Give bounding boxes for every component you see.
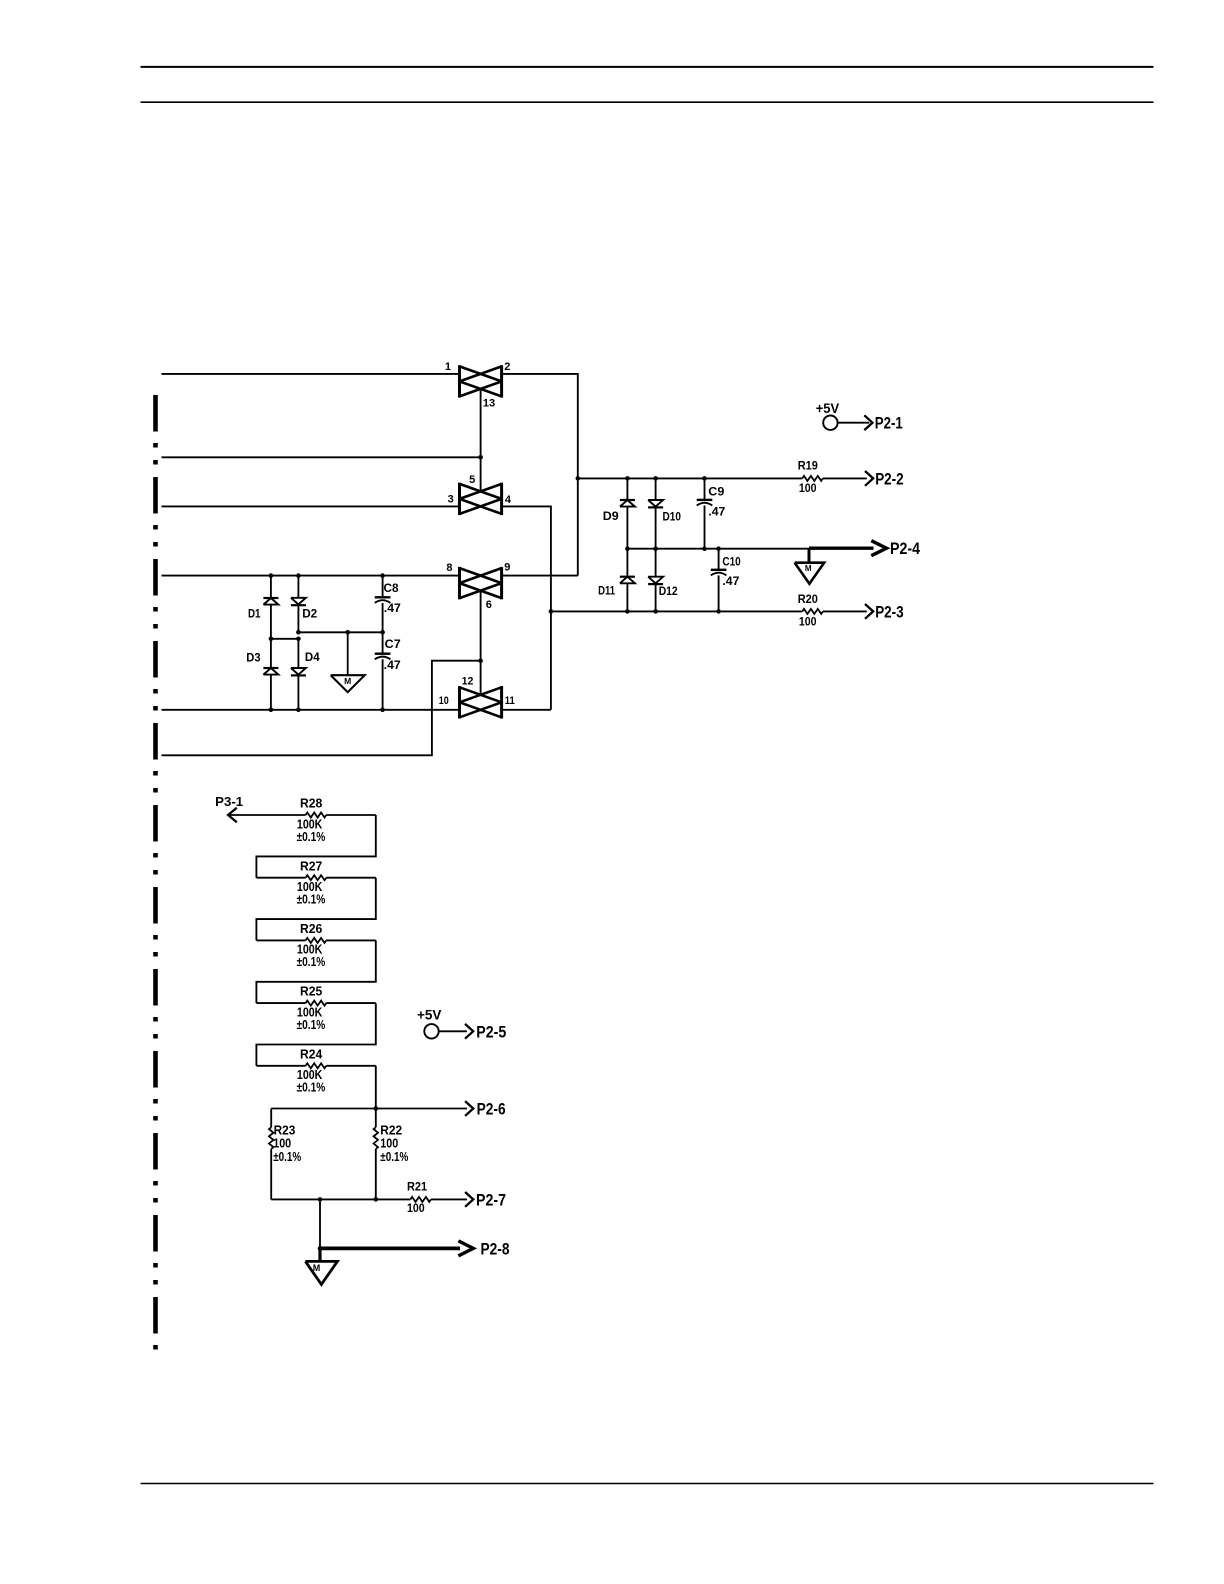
thick wire to P2-8	[320, 1247, 460, 1251]
wire net6 to controls 6/12	[162, 661, 481, 756]
svg-text:13: 13	[483, 398, 495, 410]
node junction pin4 net / P2-3 rail	[549, 609, 554, 614]
svg-text:D1: D1	[248, 607, 261, 621]
svg-text:100: 100	[799, 614, 817, 628]
wire +5V to P2-5	[439, 1030, 467, 1032]
wire net1 to pin 1	[162, 373, 460, 375]
ground stem (lower)	[319, 1199, 321, 1248]
resistor R27	[256, 877, 305, 879]
node ground stem / P2-8	[318, 1246, 323, 1251]
analog switch U1A pins 1/2/13	[458, 365, 461, 397]
capacitor C7	[382, 632, 384, 653]
ladder loop wire	[256, 815, 375, 878]
diode D1	[270, 576, 272, 598]
svg-text:5: 5	[469, 474, 475, 486]
svg-text:12: 12	[462, 676, 474, 688]
svg-text:3: 3	[448, 494, 454, 506]
wire pin 9 to vertical	[502, 575, 578, 577]
node P2-6 / R22-R24	[374, 1106, 379, 1111]
svg-text:C10: C10	[722, 555, 741, 569]
svg-text:R24: R24	[300, 1047, 322, 1061]
svg-text:±0.1%: ±0.1%	[380, 1150, 408, 1164]
svg-text:M: M	[344, 676, 351, 686]
ground symbol M (lower)	[305, 1261, 337, 1284]
svg-text:P2-8: P2-8	[481, 1239, 510, 1258]
svg-text:P2-1: P2-1	[875, 414, 903, 433]
board-edge phantom line	[153, 395, 158, 1359]
svg-text:9: 9	[504, 562, 510, 574]
svg-text:100: 100	[273, 1137, 291, 1151]
svg-text:R25: R25	[300, 985, 322, 999]
port arrow P2-3	[865, 604, 873, 619]
ladder loop wire	[256, 1003, 375, 1066]
node net5/D4	[296, 708, 301, 713]
svg-text:D11: D11	[598, 584, 615, 598]
resistor R26	[256, 939, 305, 941]
svg-text:D4: D4	[305, 650, 320, 664]
svg-text:10: 10	[439, 695, 449, 707]
wire R21 to P2-7	[431, 1198, 467, 1200]
svg-text:D3: D3	[246, 650, 261, 664]
ground symbol M (P2-4)	[795, 563, 825, 584]
svg-text:D2: D2	[302, 606, 317, 620]
node mid rail / C9	[702, 546, 707, 551]
svg-text:±0.1%: ±0.1%	[297, 893, 326, 907]
svg-text:M: M	[805, 564, 812, 573]
node P2-7 row / ground stem	[318, 1197, 323, 1202]
wire D1-D2 link	[271, 638, 299, 640]
port arrow P2-4 (thick)	[871, 541, 886, 556]
diode D12	[655, 549, 657, 577]
wire net2 to control pins 13/5	[162, 456, 481, 458]
svg-text:C8: C8	[384, 581, 399, 595]
port arrow P2-2	[865, 471, 873, 486]
svg-text:M: M	[313, 1263, 321, 1273]
node junction net6/controls	[478, 658, 483, 663]
resistor R28	[228, 814, 306, 816]
ladder loop wire	[256, 878, 375, 941]
svg-text:C9: C9	[708, 484, 724, 498]
wire pin 4 to pin 11 net	[502, 506, 551, 709]
svg-text:P3-1: P3-1	[215, 794, 243, 809]
svg-text:R20: R20	[798, 592, 818, 606]
diode D10	[655, 478, 657, 500]
svg-text:R27: R27	[300, 859, 322, 873]
svg-text:.47: .47	[708, 505, 725, 519]
node D1 link	[269, 637, 274, 642]
control line pin13 to pin5	[480, 389, 482, 492]
node pin2-pin9 / top rail tap	[576, 476, 581, 481]
svg-text:P2-7: P2-7	[476, 1190, 506, 1209]
port arrow P2-5	[465, 1024, 473, 1039]
resistor R19	[802, 476, 823, 481]
diode D11	[626, 549, 628, 577]
wire net4 to pin 8	[162, 575, 460, 577]
svg-text:1: 1	[445, 361, 451, 373]
node D2 link	[296, 637, 301, 642]
node pin8 wire / D1 branch	[269, 573, 274, 578]
node P2-7 row / R22	[374, 1197, 379, 1202]
diode D4	[297, 639, 299, 668]
wire net5 to pin 10	[162, 709, 460, 711]
wire pin 11 right	[502, 709, 551, 711]
resistor R21	[410, 1197, 431, 1202]
port arrow P2-6	[465, 1101, 473, 1116]
wire net3 to pin 3	[162, 505, 460, 507]
resistor R22 (vertical)	[375, 1109, 377, 1128]
svg-text:R19: R19	[798, 458, 818, 472]
node D2/mid link	[296, 630, 301, 635]
svg-text:R23: R23	[274, 1123, 296, 1137]
svg-text:R26: R26	[300, 922, 322, 936]
node top rail / D9	[625, 476, 630, 481]
svg-text:R21: R21	[407, 1179, 427, 1193]
wire R19 to P2-2	[823, 477, 867, 479]
resistor R24	[256, 1065, 305, 1067]
node net5/D3	[269, 708, 274, 713]
top rail to R19	[578, 477, 803, 479]
svg-text:D9: D9	[603, 509, 619, 523]
node bottom rail / D12	[653, 609, 658, 614]
capacitor C8	[382, 576, 384, 598]
capacitor C10	[718, 549, 720, 570]
svg-text:P2-2: P2-2	[875, 469, 904, 488]
port arrow P3-1 (left)	[228, 808, 237, 822]
svg-text:P2-6: P2-6	[477, 1100, 506, 1119]
svg-text:100: 100	[799, 481, 817, 495]
page top rule 1	[141, 66, 1154, 68]
svg-text:.47: .47	[722, 574, 739, 588]
diode D3	[270, 639, 272, 668]
svg-text:D12: D12	[659, 584, 678, 598]
svg-text:±0.1%: ±0.1%	[297, 1018, 326, 1032]
analog switch U1D pins 12/10/11	[458, 686, 461, 718]
port arrow P2-7	[465, 1192, 473, 1207]
svg-text:±0.1%: ±0.1%	[273, 1150, 301, 1164]
svg-text:.47: .47	[384, 601, 401, 615]
node mid rail / C10	[716, 546, 721, 551]
wire +5V to P2-1	[838, 422, 870, 424]
port arrow P2-8 (thick)	[458, 1241, 473, 1256]
wire R24 down to P2-6 node	[375, 1066, 377, 1109]
page bottom rule	[141, 1483, 1154, 1485]
svg-text:P2-3: P2-3	[875, 602, 904, 621]
analog switch U1C pins 8/9/6	[458, 567, 461, 599]
node pin8 wire / D2 branch	[296, 573, 301, 578]
ladder loop wire	[256, 940, 375, 1003]
node mid link / C7-C8	[380, 630, 385, 635]
node junction net2/controls	[478, 455, 483, 460]
svg-text:P2-5: P2-5	[476, 1022, 506, 1041]
svg-text:4: 4	[505, 494, 512, 506]
resistor R23 (vertical)	[270, 1109, 272, 1128]
svg-text:+5V: +5V	[816, 400, 840, 416]
node bottom rail / C10	[716, 609, 721, 614]
svg-text:11: 11	[505, 695, 515, 707]
svg-text:D10: D10	[663, 510, 682, 524]
svg-text:100: 100	[380, 1136, 398, 1150]
node pin8 wire / C8 branch	[380, 573, 385, 578]
svg-text:.47: .47	[384, 658, 401, 672]
svg-text:6: 6	[486, 599, 492, 611]
resistor R25	[256, 1002, 305, 1004]
wire pin 2 to pin 9 net	[502, 374, 578, 576]
node mid rail / D9	[625, 546, 630, 551]
svg-text:R28: R28	[300, 797, 322, 811]
svg-text:8: 8	[446, 562, 452, 574]
svg-text:100: 100	[407, 1201, 425, 1215]
page top rule 2	[141, 101, 1154, 103]
svg-text:C7: C7	[385, 637, 401, 651]
diode D2	[297, 576, 299, 598]
wire R20 to P2-3	[823, 610, 867, 612]
control line pin 6 down to net6	[480, 591, 482, 661]
svg-text:±0.1%: ±0.1%	[297, 1081, 326, 1095]
thick wire to P2-4	[809, 547, 874, 550]
diode D9	[626, 478, 628, 500]
capacitor C9	[704, 478, 706, 500]
analog switch U1B pins 3/4/5	[458, 483, 461, 515]
svg-text:±0.1%: ±0.1%	[297, 955, 326, 969]
bottom rail to R20	[551, 610, 802, 612]
node net5/C7	[380, 708, 385, 713]
node bottom rail / D11	[625, 609, 630, 614]
node mid link / ground stem	[345, 630, 350, 635]
svg-text:2: 2	[504, 361, 510, 373]
node top rail / C9	[702, 476, 707, 481]
wire mid link to caps	[298, 631, 382, 633]
port arrow P2-1	[864, 415, 872, 430]
svg-text:R22: R22	[380, 1123, 402, 1137]
svg-text:P2-4: P2-4	[890, 539, 920, 558]
control line pin 12 up to net6	[480, 661, 482, 695]
svg-text:±0.1%: ±0.1%	[297, 830, 326, 844]
wire P2-7 row	[271, 1198, 410, 1200]
ground stem (P2-4)	[808, 548, 811, 563]
wire P2-6 row	[271, 1108, 467, 1110]
node mid rail / D10	[653, 546, 658, 551]
node top rail / D10	[653, 476, 658, 481]
svg-text:+5V: +5V	[417, 1007, 442, 1023]
ground stem (analog)	[347, 632, 349, 675]
resistor R20	[802, 609, 823, 614]
ground symbol M (analog)	[331, 675, 365, 692]
mid rail	[627, 548, 809, 550]
